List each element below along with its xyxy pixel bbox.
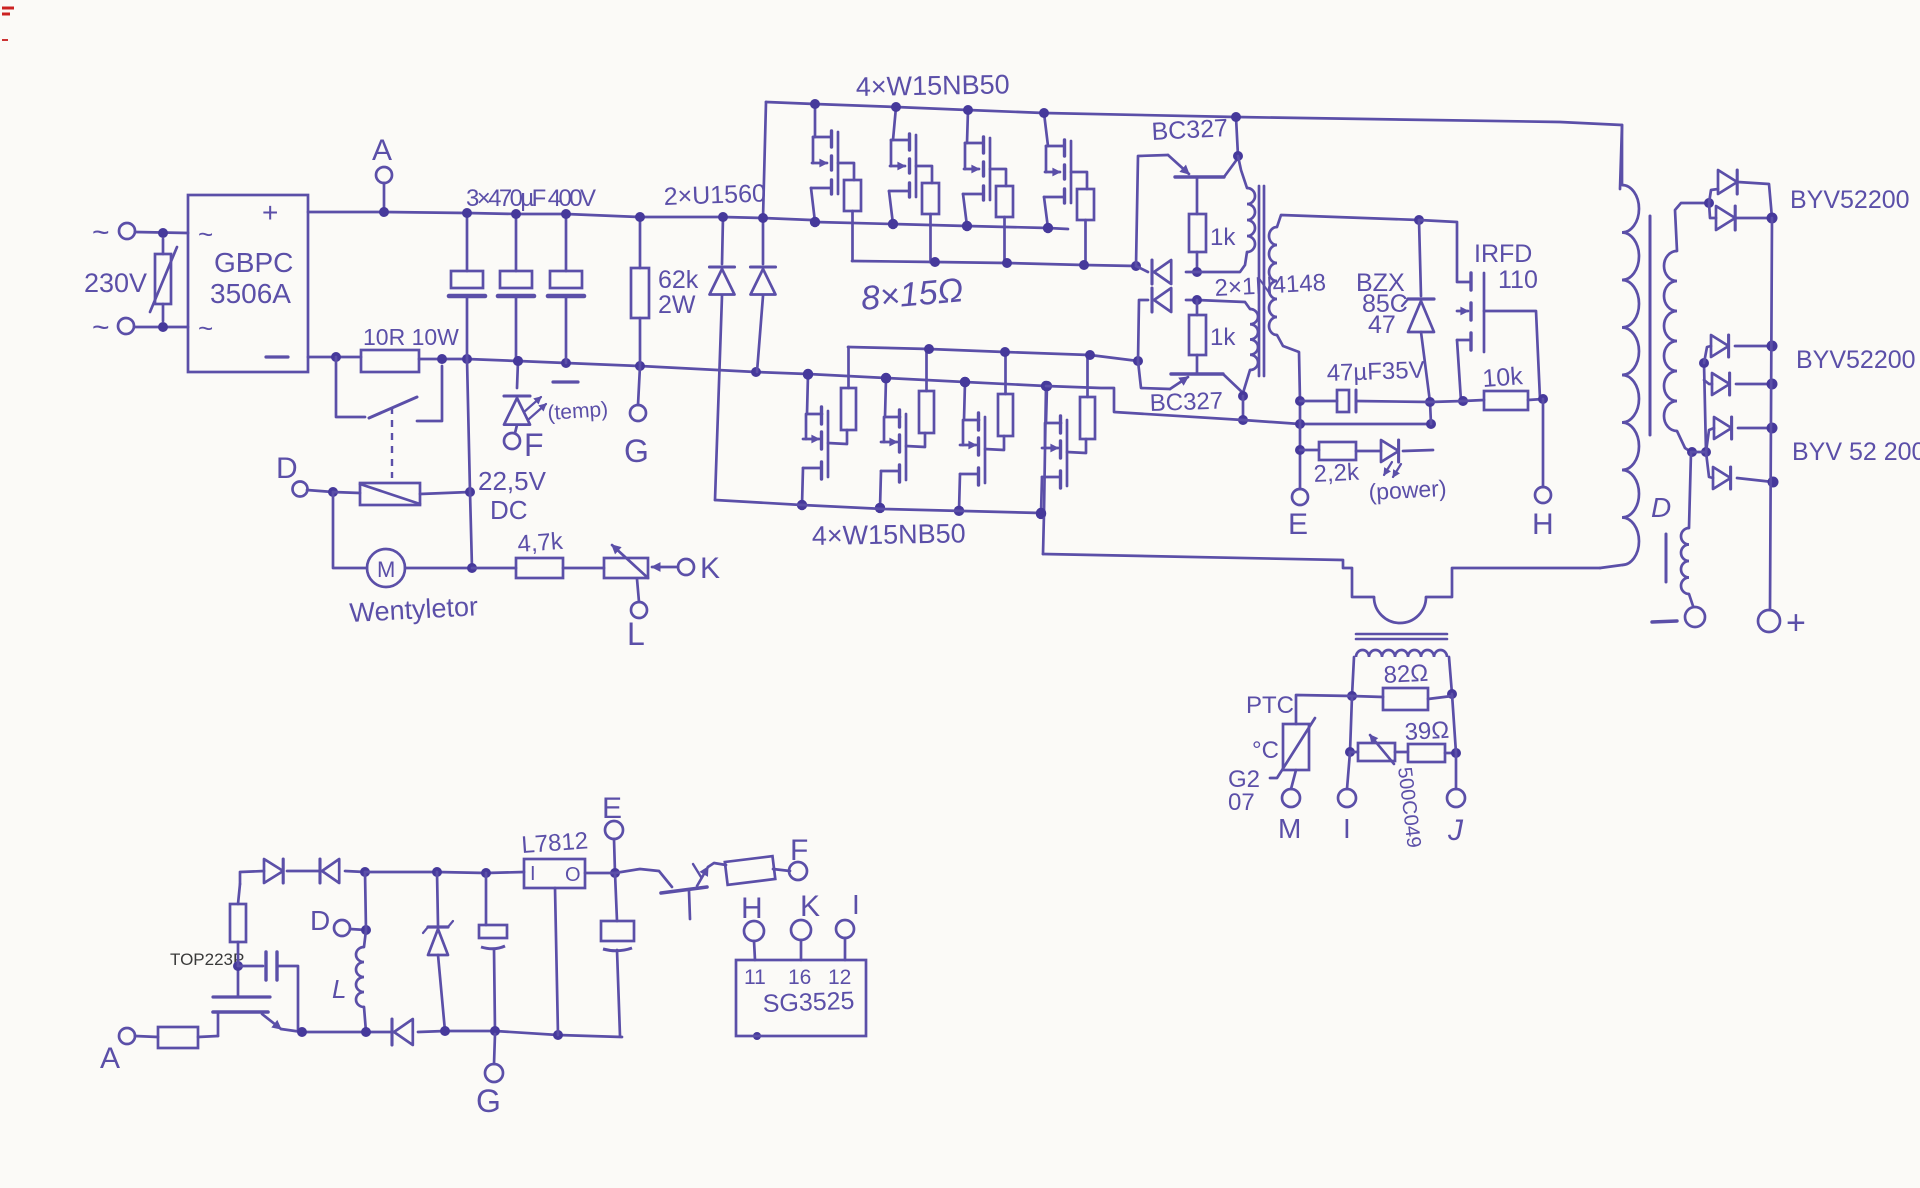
node I2 [1338,752,1356,844]
junction [513,356,523,366]
junction [1295,445,1305,455]
label 500C049 [1393,766,1425,849]
junction [561,209,571,219]
transistor Q1 W15NB50 [811,104,854,222]
diode U1560 #2 [751,102,776,372]
transistor Q8 W15NB50 [1041,386,1086,514]
capacitor C2 470uF [498,214,534,361]
svg-text:G: G [624,433,649,469]
transistor Q3 W15NB50 [963,110,1006,226]
svg-text:1k: 1k [1210,224,1236,251]
resistor R4 15R gate [1077,189,1094,265]
resistor 39R [1395,717,1456,762]
svg-text:39Ω: 39Ω [1404,717,1450,746]
transistor BC327 #2 [1138,361,1243,417]
junction [1000,347,1010,357]
resistor R2 15R gate [922,183,939,262]
resistor R7 15R gate [998,355,1013,436]
svg-text:2W: 2W [658,291,696,319]
junction [875,503,885,513]
svg-text:07: 07 [1228,789,1255,816]
junction [1131,261,1141,271]
red mark [2,8,14,14]
svg-text:BC327: BC327 [1149,387,1223,417]
svg-text:A: A [372,134,392,167]
node K2 [791,890,820,940]
LED arrows [524,397,546,419]
label 2xU1560 [663,179,766,211]
junction [437,354,447,364]
wire minus link 2 [1243,420,1431,424]
node H [1532,399,1554,541]
svg-text:H: H [1532,508,1554,541]
transformer secondary [1664,203,1709,452]
junction [1451,748,1461,758]
junction [960,377,970,387]
transistor Q4 W15NB50 [1044,113,1087,228]
junction [462,354,472,364]
winding W2 [1197,300,1258,393]
diode BYV52200 1a [1709,170,1772,218]
wire collector to bus [1236,117,1238,156]
label G2 07 [1228,766,1260,816]
node F [504,398,609,463]
AC input terminal bottom [92,311,188,344]
junction [1426,419,1436,429]
junction [490,1026,500,1036]
relay coil [333,483,470,505]
svg-text:A: A [100,1042,120,1075]
junction [328,487,338,497]
svg-text:F: F [790,834,808,867]
junction [1414,215,1424,225]
svg-text:L: L [332,974,346,1004]
mosfet IRFD110 [1419,220,1540,401]
junction [233,961,243,971]
junction [1767,213,1778,224]
IC SG3525 [736,960,866,1040]
svg-text:O: O [565,864,581,886]
junction [1233,151,1243,161]
label 230V [84,268,147,298]
wire collector drop [1242,396,1245,420]
AC input terminal top [92,216,188,249]
junction [1701,447,1711,457]
resistor 2,2k [1300,442,1361,488]
junction [1347,691,1357,701]
wire aux rail 2 [365,872,524,873]
label 4xW15NB50 top [856,69,1010,102]
resistor 1k #1 [1189,177,1236,272]
svg-text:DC: DC [490,495,528,525]
wire top gate bus [852,261,1136,266]
node F2 [789,834,808,880]
junction [881,373,891,383]
wire -DC rail [308,356,361,359]
wire relay to rail [467,359,472,568]
resistor R1 15R gate [844,180,861,261]
transformer core [1259,186,1264,376]
red mark2 [2,39,8,41]
label BYV52200 #3 [1792,438,1920,466]
junction [718,212,728,222]
junction [1043,223,1053,233]
junction [803,369,813,379]
junction [511,209,521,219]
wire 82 left drop [1350,696,1352,752]
svg-text:2,2k: 2,2k [1313,459,1361,488]
junction [751,367,761,377]
node A2 [100,1028,158,1075]
diode BYV52200 3b [1706,452,1773,489]
diode BYV52200 2b [1704,373,1772,395]
junction [1767,379,1778,390]
pass transistor [615,864,708,919]
capacitor C1 470uF [449,213,485,359]
svg-text:~: ~ [92,311,110,344]
resistor 10k [1463,362,1543,410]
capacitor CB [601,873,634,1036]
label BYV52200 #2 [1796,346,1916,374]
junction [561,358,571,368]
svg-text:~: ~ [92,216,110,249]
label 4xW15NB50 bottom [812,518,966,551]
node L [627,579,647,652]
label TOP223P [170,950,244,969]
bump core [1356,634,1447,639]
diode BYV52200 1b [1709,203,1772,230]
junction [758,213,768,223]
svg-text:J: J [1447,814,1464,847]
wire 4k7 to pot [563,567,604,570]
junction [465,487,475,497]
wire I2 [844,938,847,960]
zener BZX85C47 [1356,220,1434,402]
svg-text:M: M [1278,813,1301,844]
capacitor CT [238,952,298,1030]
svg-text:BC327: BC327 [1151,114,1229,146]
PTC thermistor [1270,695,1352,789]
junction [1699,358,1709,368]
LED power [1356,440,1447,505]
diode 1N4148 #1 [1136,260,1197,284]
junction [432,867,442,877]
node H2 [741,892,764,960]
node D [276,452,333,497]
junction [361,1027,371,1037]
resistor R5 15R gate [841,347,856,430]
wire reg out [585,872,615,875]
junction [361,925,371,935]
svg-text:Wentyletor: Wentyletor [349,591,479,628]
svg-text:3506A: 3506A [210,278,291,309]
svg-text:SG3525: SG3525 [762,987,855,1018]
transistor Q7 W15NB50 [959,382,1004,511]
resistor R8 15R gate [1080,359,1095,439]
bridge rectifier GBPC3506A [188,195,308,372]
label Wentyletor [349,591,479,628]
svg-text:12: 12 [828,966,851,989]
junction [1036,509,1046,519]
choke [1666,528,1693,606]
wire +DC rail [308,212,811,220]
junction [954,506,964,516]
resistor RF [708,856,790,885]
junction [635,212,645,222]
inductor LA [332,872,366,1032]
node M [1278,789,1301,844]
regulator L7812 [521,827,589,888]
junction [610,868,620,878]
svg-text:500C049: 500C049 [1393,766,1425,849]
diode 1N4148 #2 [1138,288,1197,361]
junction [1704,198,1714,208]
diode DA [264,859,320,883]
junction [1295,396,1305,406]
wire zener to minus [1430,402,1431,424]
label degC [1252,737,1279,764]
transistor Q6 W15NB50 [880,378,925,508]
wire source bus to driver [1136,155,1168,266]
svg-text:PTC: PTC [1246,692,1294,719]
svg-text:16: 16 [788,966,811,989]
junction [331,352,341,362]
junction [467,563,477,573]
junction [930,257,940,267]
wire minus link [1046,386,1243,420]
junction [1447,689,1457,699]
diode U1560 #1 [710,217,735,500]
svg-text:+: + [1786,604,1806,642]
wire cap to 10k [1430,401,1463,402]
svg-text:E: E [1288,508,1308,541]
svg-text:110: 110 [1498,266,1538,294]
label BYV52200 #1 [1790,186,1910,214]
transistor BC327 #1 [1151,114,1238,177]
capacitor C3 470uF [548,214,584,363]
svg-text:3×470µF 400V: 3×470µF 400V [466,185,596,212]
node A [372,134,392,212]
node G [624,366,649,469]
svg-text:4×W15NB50: 4×W15NB50 [856,69,1010,102]
resistor RA [158,1027,218,1048]
output - terminal [1652,607,1705,627]
junction [1538,394,1548,404]
svg-text:°C: °C [1252,737,1279,764]
junction [1041,381,1051,391]
junction [379,207,389,217]
capacitor CA [479,873,507,1031]
svg-text:47: 47 [1368,311,1396,339]
junction [810,217,820,227]
svg-text:~: ~ [198,219,213,249]
junction [1687,447,1697,457]
svg-text:82Ω: 82Ω [1383,660,1429,689]
svg-text:F: F [524,427,544,463]
wire bottom gate bus [848,347,1138,361]
wire output plus rail [1770,218,1772,610]
junction [635,361,645,371]
node I2aux [836,889,860,938]
svg-text:K: K [700,552,720,585]
junction [1133,356,1143,366]
junction [960,377,970,387]
junction [1039,108,1049,118]
junction [803,369,813,379]
junction [1192,295,1202,305]
junction [1767,423,1778,434]
label 2x1N4148 [1214,269,1327,302]
resistor 62k 2W [631,217,699,366]
enclosure bottom wire 2 [1426,568,1600,597]
junction [924,344,934,354]
potentiometer 500C049 [1350,735,1395,764]
relay dash link [391,407,393,478]
winding W3 [1269,215,1419,401]
node E [1288,401,1308,541]
svg-text:(temp): (temp) [547,398,609,425]
label 8x15R [859,271,964,318]
junction [1238,415,1248,425]
junction [1295,419,1305,429]
label 22,5V DC [478,466,547,525]
wire aux bottom rail [302,1031,392,1034]
cap bar [553,380,578,383]
svg-text:I: I [530,863,536,885]
resistor 82R [1352,660,1452,710]
wire +DC gate rail [811,220,1068,229]
svg-text:D: D [276,452,298,485]
wire 39 right drop [1452,694,1456,753]
winding W1 [1238,156,1255,252]
output + terminal [1758,604,1806,642]
junction [1345,747,1355,757]
resistor RB [230,884,246,966]
diode DC [392,1019,445,1045]
junction [1425,397,1435,407]
junction [360,867,370,877]
svg-text:8×15Ω: 8×15Ω [859,271,964,318]
enclosure bottom wire [1043,554,1374,597]
resistor 10R 10W [361,324,459,372]
wire pair2 drop [1704,363,1706,452]
junction [797,500,807,510]
svg-text:L7812: L7812 [521,827,589,859]
zener DZ [423,872,453,1031]
resistor 1k #2 [1189,300,1236,374]
junction [1085,350,1095,360]
junction [963,105,973,115]
svg-text:4,7k: 4,7k [517,528,565,558]
transformer primary [1600,125,1639,568]
node K [652,552,720,585]
svg-text:E: E [602,792,622,825]
junction [1768,477,1779,488]
junction [1238,391,1248,401]
wire D to motor [333,492,367,568]
TOP223P mosfet [213,966,302,1036]
potentiometer [604,545,648,578]
transistor Q2 W15NB50 [889,107,932,224]
wire K2 [800,940,803,960]
junction [158,322,168,332]
resistor R6 15R gate [919,351,934,433]
junction [1079,260,1089,270]
svg-text:2×U1560: 2×U1560 [663,179,766,211]
node E2 [602,792,623,873]
svg-text:H: H [741,892,763,925]
diode BYV52200 2a [1704,335,1772,363]
wire top drain bus [766,102,1622,189]
svg-text:1k: 1k [1210,324,1236,351]
wire aux bottom rail 2 [445,1031,622,1037]
svg-text:BYV52200: BYV52200 [1796,346,1916,374]
junction [481,868,491,878]
svg-text:47µF35V: 47µF35V [1326,357,1425,387]
svg-text:G: G [476,1083,501,1119]
svg-text:D: D [310,905,330,936]
transformer core [1649,216,1652,435]
junction [462,208,472,218]
bump secondary [1352,650,1452,696]
transistor Q5 W15NB50 [802,375,847,505]
svg-text:I: I [1343,813,1351,844]
svg-text:IRFD: IRFD [1474,240,1532,268]
node G2aux [476,1034,503,1119]
motor M fan [367,549,472,587]
svg-text:62k: 62k [658,266,699,294]
diode BYV52200 3a [1692,417,1772,452]
svg-text:I: I [852,889,860,920]
resistor R3 15R gate [996,186,1013,264]
svg-text:K: K [800,890,820,923]
junction [891,102,901,112]
junction [513,356,523,366]
varistor [150,239,177,321]
svg-text:BYV 52 200: BYV 52 200 [1792,438,1920,466]
svg-text:11: 11 [744,966,766,989]
wire reg bottom [555,888,558,1035]
svg-text:M: M [377,557,395,582]
svg-text:+: + [262,197,278,228]
junction [810,99,820,109]
junction [1192,267,1202,277]
junction [1231,112,1241,122]
junction [888,219,898,229]
capacitor 47uF 35V [1300,357,1430,412]
label PTC [1246,692,1294,719]
relay switch [336,357,442,421]
svg-text:(power): (power) [1368,475,1447,505]
svg-text:GBPC: GBPC [214,247,293,278]
svg-text:230V: 230V [84,268,147,298]
svg-text:10R 10W: 10R 10W [363,324,459,350]
LED temp [504,361,530,433]
junction [962,221,972,231]
junction [1458,396,1468,406]
wire motor to 4k7 [472,567,516,570]
junction [1036,508,1046,518]
wire aux top rail [240,871,264,884]
wire -DC rail 2 [419,359,1046,386]
svg-text:10k: 10k [1481,362,1524,393]
junction [158,228,168,238]
junction [440,1026,450,1036]
junction [553,1030,563,1040]
junction [881,373,891,383]
node D secondary [1651,452,1691,528]
wire bottom source bus [715,500,1041,513]
